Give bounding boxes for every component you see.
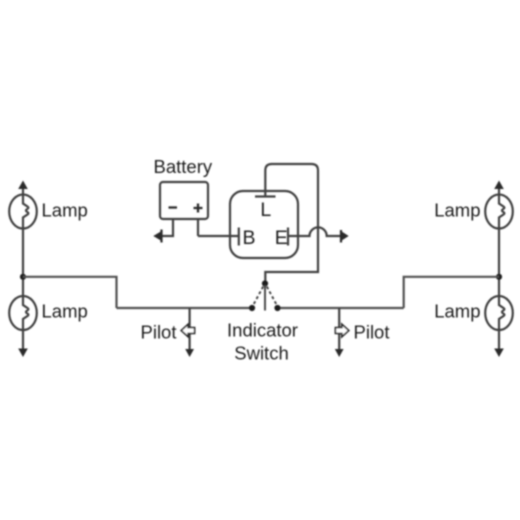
svg-text:Pilot: Pilot bbox=[354, 322, 390, 343]
wire step to switch left contact bbox=[117, 307, 253, 309]
filament of lamp RF bbox=[499, 186, 504, 229]
wire left pilot stub bbox=[189, 308, 191, 350]
wire left junction to step bbox=[23, 277, 117, 308]
wire terminal L around relay to switch pole bbox=[265, 164, 318, 284]
wire LF to junction bbox=[22, 229, 24, 297]
node switch right contact bbox=[274, 305, 280, 311]
lamp LR bottom (left rear) bbox=[9, 296, 37, 330]
node left junction bbox=[20, 274, 26, 280]
hollow arrow right (to pilot lamp) bbox=[335, 324, 348, 337]
wire battery positive bbox=[197, 219, 199, 236]
lamp RR bottom (right rear) bbox=[485, 296, 513, 330]
node switch pole bbox=[262, 280, 268, 286]
wire step to switch right contact bbox=[278, 307, 404, 309]
switch throw dashed left bbox=[253, 287, 263, 306]
switch actuator line bbox=[264, 285, 266, 311]
battery minus mark bbox=[169, 206, 178, 208]
lamp RF top (right front) bbox=[485, 195, 513, 229]
wire positive to terminal B bbox=[198, 235, 239, 237]
connector bar (E side) bbox=[340, 230, 342, 243]
wire right junction to step bbox=[404, 277, 499, 308]
svg-text:L: L bbox=[260, 199, 271, 221]
arrow up above RF bbox=[494, 181, 504, 190]
filament of lamp RR bbox=[499, 296, 504, 330]
filament of lamp LR bbox=[23, 296, 28, 330]
lamp LF top (left front) bbox=[9, 195, 37, 229]
svg-text:Indicator: Indicator bbox=[227, 320, 298, 341]
svg-text:Lamp: Lamp bbox=[434, 301, 480, 322]
terminal B bar bbox=[238, 228, 240, 246]
hollow arrow left (to pilot lamp) bbox=[181, 324, 194, 337]
wire right pilot stub bbox=[338, 308, 340, 350]
battery plus mark bbox=[194, 204, 203, 213]
wire battery negative bbox=[162, 219, 173, 236]
filament of lamp LF bbox=[23, 186, 28, 229]
svg-text:Lamp: Lamp bbox=[434, 200, 480, 221]
arrow down below RR bbox=[494, 349, 504, 358]
svg-text:E: E bbox=[275, 227, 288, 249]
svg-text:Lamp: Lamp bbox=[42, 200, 88, 221]
arrow up (to other lamp circuit) above LF bbox=[18, 181, 28, 190]
label Indicator Switch bbox=[227, 320, 298, 364]
flasher unit U1 body bbox=[230, 191, 298, 258]
arrow down below LR bbox=[18, 349, 28, 358]
arrow left (battery negative to earth) bbox=[153, 231, 161, 240]
switch throw dashed right bbox=[267, 287, 277, 306]
svg-text:Pilot: Pilot bbox=[141, 322, 177, 343]
svg-text:B: B bbox=[242, 227, 255, 249]
wire RF to junction bbox=[498, 229, 500, 297]
svg-text:Battery: Battery bbox=[154, 156, 213, 177]
terminal L bar bbox=[255, 195, 276, 197]
arrow down (left pilot) bbox=[185, 349, 194, 357]
svg-text:Switch: Switch bbox=[234, 343, 289, 364]
wire LR down bbox=[22, 330, 24, 350]
arrow down (right pilot) bbox=[335, 349, 344, 357]
wire terminal E with hop over L wire bbox=[288, 227, 341, 236]
svg-text:Lamp: Lamp bbox=[42, 301, 88, 322]
arrow right (E to earth) bbox=[342, 231, 349, 240]
connector bar (negative) bbox=[160, 230, 162, 243]
wire RR down bbox=[498, 330, 500, 350]
battery B1 body bbox=[160, 182, 208, 219]
terminal E bar bbox=[287, 228, 289, 246]
node switch left contact bbox=[249, 305, 255, 311]
node right junction bbox=[496, 274, 502, 280]
